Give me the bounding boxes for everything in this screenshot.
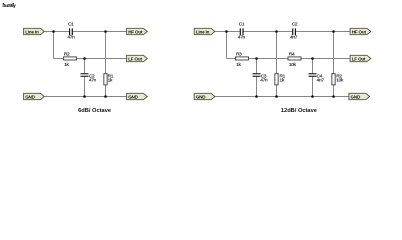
junction node after R3	[255, 57, 258, 60]
junction rail-C2	[83, 95, 86, 98]
wire: Line In to C1 (top row)	[215, 31, 240, 33]
resistor R2	[64, 52, 77, 69]
svg-text:SuS5y: SuS5y	[3, 3, 17, 9]
wire: ground rail	[44, 96, 126, 98]
resistor R2	[332, 74, 344, 85]
connector HF Out (right)	[350, 28, 371, 34]
connector Line In (right)	[194, 28, 215, 34]
junction node after C1	[275, 30, 278, 33]
svg-text:47n: 47n	[67, 35, 75, 41]
svg-text:C2: C2	[292, 21, 298, 27]
svg-text:C1: C1	[68, 21, 74, 27]
junction rail-R1	[275, 95, 278, 98]
resistor R4	[288, 52, 301, 69]
junction rail-R1	[104, 95, 107, 98]
junction rail-C3	[255, 95, 258, 98]
wire: LF node down to C2 and ground rail	[84, 59, 86, 97]
wire: vertical drop input node to mid row	[226, 32, 228, 59]
wire: R4 to LF Out tag	[301, 58, 350, 60]
wire: R2 to LF Out tag	[77, 58, 127, 60]
junction rail-C4	[311, 95, 314, 98]
wire: node after C1 down through R1 to rail	[276, 32, 278, 97]
caption 12dB/Octave	[281, 108, 317, 114]
svg-text:GND: GND	[351, 94, 361, 99]
resistor R1	[104, 74, 114, 85]
ground GND (left bottom-right)	[127, 93, 148, 99]
wire: C1 to HF Out tag	[73, 31, 127, 33]
svg-text:R2: R2	[64, 52, 70, 58]
svg-text:4n7: 4n7	[317, 77, 325, 83]
junction node after R4	[311, 57, 314, 60]
wire: node after R3 down through C3 to rail	[256, 59, 258, 97]
wire: C2 to HF Out tag	[296, 31, 350, 33]
wire: Line In to C1 (top row)	[44, 31, 69, 33]
resistor R3	[236, 52, 249, 69]
svg-text:12dB/ Octave: 12dB/ Octave	[281, 108, 317, 114]
wire: ground rail	[215, 96, 349, 98]
connector HF Out (left)	[127, 28, 148, 34]
junction rail-R2	[332, 95, 335, 98]
junction HF node	[104, 30, 107, 33]
svg-text:Line In: Line In	[25, 29, 39, 34]
svg-text:C1: C1	[239, 21, 245, 27]
svg-text:10k: 10k	[289, 62, 297, 68]
svg-text:R4: R4	[289, 52, 295, 58]
junction LF node	[83, 57, 86, 60]
connector LF Out (right)	[350, 55, 371, 61]
junction input node	[225, 30, 228, 33]
logo stamp top-left	[2, 3, 16, 9]
ground GND (right bottom-left)	[194, 93, 215, 99]
capacitor C2	[290, 21, 298, 40]
wire: vertical drop from node A to mid row	[53, 32, 55, 59]
capacitor C2	[81, 73, 97, 83]
ground GND (right bottom-right)	[349, 93, 370, 99]
capacitor C4	[309, 73, 325, 83]
svg-text:6dB/ Octave: 6dB/ Octave	[78, 108, 111, 114]
connector LF Out (left)	[127, 55, 148, 61]
svg-text:GND: GND	[196, 94, 206, 99]
wire: mid row to R3	[227, 58, 236, 60]
resistor R1	[275, 74, 286, 85]
wire: node after R4 down through C4 to rail	[312, 59, 314, 97]
svg-text:47n: 47n	[89, 77, 97, 83]
svg-text:4n7: 4n7	[290, 35, 298, 41]
capacitor C1	[67, 21, 75, 40]
svg-text:Line In: Line In	[196, 29, 210, 34]
caption 6dB/Octave	[78, 108, 111, 114]
wire: C1 to C2 (top row)	[243, 31, 292, 33]
svg-text:47n: 47n	[260, 77, 268, 83]
junction node after C2	[332, 30, 335, 33]
svg-text:R3: R3	[236, 52, 242, 58]
ground GND (left bottom-left)	[24, 93, 45, 99]
svg-text:GND: GND	[25, 94, 35, 99]
wire: node after C2 down through R2 to rail	[333, 32, 335, 97]
capacitor C1	[238, 21, 246, 40]
svg-text:47n: 47n	[238, 35, 246, 41]
wire: HF node down to R1 and ground rail	[105, 32, 107, 97]
svg-text:GND: GND	[128, 94, 138, 99]
capacitor C3	[253, 73, 269, 83]
svg-text:HF Out: HF Out	[352, 29, 367, 34]
wire: mid row to R2	[54, 58, 64, 60]
svg-text:LF Out: LF Out	[352, 56, 366, 61]
svg-text:LF Out: LF Out	[128, 56, 142, 61]
svg-text:10k: 10k	[336, 77, 344, 83]
junction node A (Line In split)	[52, 30, 55, 33]
connector Line In (left)	[24, 28, 45, 34]
svg-text:HF Out: HF Out	[128, 29, 143, 34]
wire: R3 to R4	[249, 58, 289, 60]
